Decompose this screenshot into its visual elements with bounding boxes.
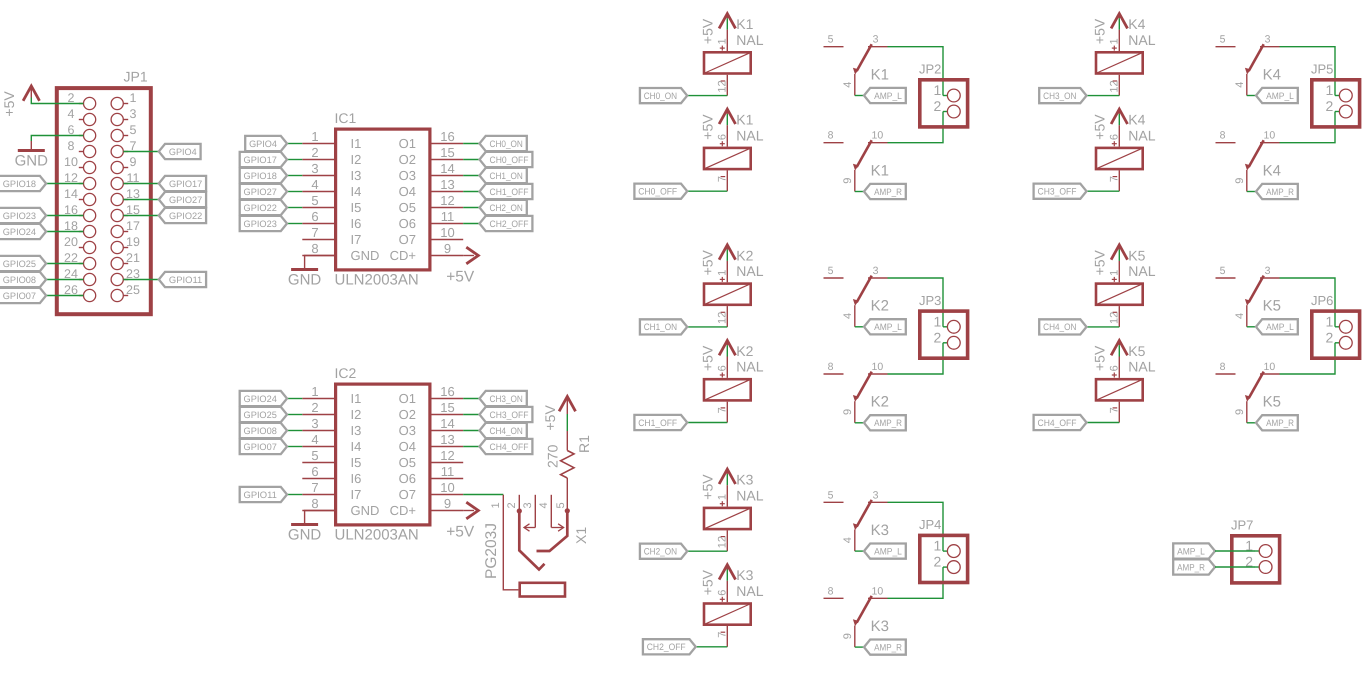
- net label GPIO23: [0, 208, 46, 223]
- svg-text:10: 10: [872, 585, 884, 597]
- wire GPIO4 to IC1 pin 1: [287, 143, 302, 145]
- svg-text:AMP_L: AMP_L: [1266, 322, 1294, 332]
- svg-text:1: 1: [311, 129, 318, 144]
- net label CH4_OFF: [1034, 415, 1087, 430]
- svg-text:AMP_L: AMP_L: [874, 91, 902, 101]
- wire IC1 pin 13 to CH1_OFF: [463, 191, 479, 193]
- wire +5V to K1 coil: [726, 18, 728, 29]
- svg-text:4: 4: [311, 432, 318, 447]
- wire K1 pin3 to JP2 pin1: [888, 47, 944, 96]
- svg-text:O3: O3: [399, 423, 416, 438]
- svg-text:I5: I5: [351, 200, 362, 215]
- svg-text:PG203J: PG203J: [483, 523, 500, 579]
- wire IC1 pin 16 to CH0_ON: [463, 143, 479, 145]
- svg-text:6: 6: [717, 134, 729, 140]
- svg-text:8: 8: [1220, 361, 1226, 373]
- svg-text:AMP_L: AMP_L: [874, 322, 902, 332]
- IC darlington array IC1 ULN2003AN: [302, 110, 463, 289]
- supply +5V symbol at relay K2 coil: [700, 245, 736, 276]
- svg-text:NAL: NAL: [1128, 263, 1155, 279]
- relay coil K5 value NAL: [1096, 343, 1156, 423]
- svg-text:O5: O5: [399, 200, 416, 215]
- svg-text:5: 5: [1220, 265, 1226, 277]
- svg-text:3: 3: [873, 265, 879, 277]
- wire K4 common to AMP_R: [1247, 191, 1256, 193]
- supply +5V symbol at JP1 pin 2: [1, 86, 39, 117]
- svg-text:8: 8: [311, 241, 318, 256]
- wire K1 pin10 to JP2 pin2: [888, 112, 944, 143]
- wire IC1 pin 12 to CH2_ON: [463, 207, 479, 209]
- svg-text:6: 6: [1109, 134, 1121, 140]
- net label CH0_ON: [480, 136, 527, 151]
- svg-text:13: 13: [440, 432, 454, 447]
- svg-text:CH1_ON: CH1_ON: [644, 322, 677, 332]
- svg-text:+5V: +5V: [700, 474, 716, 500]
- ground GND symbol at JP1 pin 6: [15, 141, 49, 170]
- svg-text:CH0_ON: CH0_ON: [490, 139, 523, 149]
- wire GPIO07 to JP1: [46, 295, 83, 297]
- svg-text:JP5: JP5: [1311, 62, 1333, 77]
- svg-text:+5V: +5V: [446, 523, 475, 540]
- svg-text:O7: O7: [399, 487, 416, 502]
- svg-text:ULN2003AN: ULN2003AN: [335, 527, 419, 544]
- relay coil K4 value NAL: [1096, 112, 1156, 192]
- svg-text:I6: I6: [351, 471, 362, 486]
- net label AMP_L: [1256, 319, 1298, 334]
- svg-text:CD+: CD+: [390, 503, 416, 518]
- net label GPIO22: [159, 208, 206, 223]
- svg-text:+5V: +5V: [1, 91, 17, 117]
- wire K2 pin3 to JP3 pin1: [888, 278, 944, 327]
- svg-text:270: 270: [545, 444, 561, 468]
- svg-text:9: 9: [842, 409, 854, 415]
- svg-text:9: 9: [444, 496, 451, 511]
- svg-text:9: 9: [842, 178, 854, 184]
- svg-text:K1: K1: [736, 16, 753, 32]
- wire K1 coil to CH0_ON: [687, 95, 727, 97]
- svg-text:JP3: JP3: [919, 293, 941, 308]
- svg-text:CH3_ON: CH3_ON: [1043, 91, 1076, 101]
- svg-text:8: 8: [828, 130, 834, 142]
- net label CH2_ON: [640, 544, 687, 559]
- connector JP3: [919, 293, 968, 358]
- connector JP2: [919, 62, 968, 127]
- relay contact K1 switch: [824, 130, 889, 192]
- supply +5V symbol at relay K4 coil: [1092, 14, 1128, 44]
- wire K5 pin3 to JP6 pin1: [1280, 278, 1336, 327]
- wire K2 common to AMP_L: [855, 326, 864, 328]
- svg-text:15: 15: [440, 145, 454, 160]
- wire GPIO24 to JP1: [46, 231, 83, 233]
- svg-text:GPIO23: GPIO23: [244, 219, 277, 229]
- svg-text:CH1_OFF: CH1_OFF: [638, 418, 677, 428]
- supply +5V symbol at relay K1 coil: [700, 14, 736, 44]
- svg-text:GND: GND: [288, 527, 322, 544]
- svg-text:GPIO27: GPIO27: [244, 187, 277, 197]
- svg-text:I4: I4: [351, 184, 362, 199]
- svg-text:1: 1: [1109, 270, 1121, 276]
- svg-text:GPIO24: GPIO24: [3, 227, 36, 237]
- svg-text:8: 8: [311, 496, 318, 511]
- svg-text:4: 4: [842, 82, 854, 88]
- svg-text:GPIO18: GPIO18: [3, 179, 36, 189]
- svg-text:17: 17: [126, 219, 140, 233]
- svg-text:+5V: +5V: [700, 345, 716, 371]
- svg-text:2: 2: [934, 329, 942, 345]
- svg-text:GPIO11: GPIO11: [244, 490, 277, 500]
- wire JP1 to GPIO27: [123, 199, 158, 201]
- svg-text:9: 9: [130, 155, 137, 169]
- svg-text:I7: I7: [351, 487, 362, 502]
- svg-text:GND: GND: [15, 153, 49, 170]
- wire K3 coil to CH2_ON: [687, 550, 727, 552]
- svg-text:GPIO24: GPIO24: [244, 394, 277, 404]
- svg-text:3: 3: [1265, 265, 1271, 277]
- net label AMP_L: [864, 319, 906, 334]
- svg-text:+5V: +5V: [700, 569, 716, 595]
- svg-text:7: 7: [311, 480, 318, 495]
- wire K4 common to AMP_L: [1247, 95, 1256, 97]
- net label AMP_R: [1256, 184, 1298, 199]
- net label GPIO07: [240, 439, 287, 454]
- svg-text:20: 20: [64, 235, 78, 249]
- net label GPIO22: [240, 200, 287, 215]
- svg-text:10: 10: [1264, 361, 1276, 373]
- wire IC2 pin 15 to CH3_OFF: [463, 414, 479, 416]
- relay coil K1 value NAL: [704, 16, 764, 96]
- net label CH0_OFF: [480, 152, 533, 167]
- wire K5 pin10 to JP6 pin2: [1280, 343, 1336, 374]
- svg-text:CH3_OFF: CH3_OFF: [490, 410, 529, 420]
- net label CH2_OFF: [480, 216, 533, 231]
- svg-text:1: 1: [934, 313, 942, 329]
- svg-text:AMP_R: AMP_R: [874, 187, 902, 197]
- relay contact K1 switch: [824, 34, 889, 96]
- wire K2 coil to CH1_OFF: [687, 422, 727, 424]
- svg-text:2: 2: [1326, 98, 1334, 114]
- wire GPIO11 to IC2 pin 7: [287, 494, 302, 496]
- net label GPIO4: [245, 136, 287, 151]
- svg-text:12: 12: [1109, 80, 1121, 92]
- svg-text:K3: K3: [871, 618, 889, 635]
- svg-text:1: 1: [934, 82, 942, 98]
- svg-text:11: 11: [441, 209, 455, 224]
- wire IC1 pin 8 to GND: [305, 256, 334, 269]
- wire K2 pin10 to JP3 pin2: [888, 343, 944, 374]
- svg-text:12: 12: [717, 80, 729, 92]
- svg-text:9: 9: [444, 241, 451, 256]
- svg-text:CH2_ON: CH2_ON: [490, 203, 523, 213]
- relay coil K1 value NAL: [704, 112, 764, 192]
- svg-text:12: 12: [440, 448, 454, 463]
- relay contact K4 switch: [1216, 130, 1281, 192]
- net label GPIO27: [240, 184, 287, 199]
- supply +5V symbol at IC2 pin 9: [446, 502, 478, 540]
- net label CH2_OFF: [643, 639, 696, 654]
- wire K5 coil to CH4_ON: [1087, 326, 1120, 328]
- relay coil K3 value NAL: [704, 567, 764, 647]
- wire K5 common to AMP_R: [1247, 422, 1256, 424]
- relay contact K5 switch: [1216, 361, 1281, 423]
- svg-text:GPIO08: GPIO08: [3, 275, 36, 285]
- IC darlington array IC2 ULN2003AN: [302, 365, 463, 544]
- relay contact K2 switch: [824, 265, 889, 327]
- svg-text:R1: R1: [576, 435, 592, 453]
- svg-text:IC1: IC1: [335, 110, 357, 126]
- connector JP1 pin header 2x13: [57, 69, 151, 315]
- svg-text:I1: I1: [351, 391, 362, 406]
- svg-text:GPIO18: GPIO18: [244, 171, 277, 181]
- wire GPIO18 to IC1 pin 3: [287, 175, 302, 177]
- net label GPIO25: [240, 407, 287, 422]
- svg-text:12: 12: [440, 193, 454, 208]
- wire IC2 pin 14 to CH4_ON: [463, 430, 479, 432]
- svg-text:5: 5: [130, 123, 137, 137]
- svg-text:+5V: +5V: [700, 114, 716, 140]
- svg-text:CH0_ON: CH0_ON: [644, 91, 677, 101]
- wire GPIO25 to IC2 pin 2: [287, 414, 302, 416]
- net label GPIO27: [159, 192, 206, 207]
- svg-text:I7: I7: [351, 232, 362, 247]
- svg-text:7: 7: [717, 407, 729, 413]
- wire +5V to K5 coil: [1118, 250, 1120, 261]
- svg-text:GPIO27: GPIO27: [169, 195, 202, 205]
- svg-text:CH4_OFF: CH4_OFF: [1038, 418, 1077, 428]
- svg-text:CH3_OFF: CH3_OFF: [1038, 187, 1077, 197]
- wire K2 coil to CH1_ON: [687, 326, 727, 328]
- svg-text:16: 16: [440, 129, 454, 144]
- svg-text:O3: O3: [399, 168, 416, 183]
- svg-text:+5V: +5V: [542, 405, 558, 431]
- ground GND symbol at IC2 pin 8: [288, 525, 322, 544]
- net label CH0_OFF: [634, 184, 687, 199]
- svg-text:3: 3: [522, 502, 534, 508]
- svg-text:7: 7: [717, 176, 729, 182]
- svg-text:I1: I1: [351, 136, 362, 151]
- svg-text:3: 3: [1265, 34, 1271, 46]
- svg-text:AMP_R: AMP_R: [1177, 562, 1205, 572]
- wire +5V to K1 coil: [726, 114, 728, 125]
- wire IC2 pin 16 to CH3_ON: [463, 398, 479, 400]
- svg-text:5: 5: [828, 34, 834, 46]
- svg-text:CH2_ON: CH2_ON: [644, 547, 677, 557]
- svg-text:O6: O6: [399, 216, 416, 231]
- svg-text:7: 7: [311, 225, 318, 240]
- svg-text:10: 10: [1264, 130, 1276, 142]
- svg-text:K1: K1: [736, 112, 753, 128]
- wire K3 coil to CH2_OFF: [696, 646, 728, 648]
- svg-text:9: 9: [842, 633, 854, 639]
- wire GPIO22 to IC1 pin 5: [287, 207, 302, 209]
- net label AMP_L: [864, 88, 906, 103]
- net label GPIO18: [0, 176, 46, 191]
- wire GPIO17 to IC1 pin 2: [287, 159, 302, 161]
- net label CH1_ON: [480, 168, 527, 183]
- wire AMP_R to JP7 pin2: [1215, 566, 1255, 568]
- svg-text:CD+: CD+: [390, 248, 416, 263]
- svg-text:16: 16: [440, 384, 454, 399]
- svg-text:I2: I2: [351, 407, 362, 422]
- svg-text:+5V: +5V: [1092, 345, 1108, 371]
- svg-text:11: 11: [441, 464, 455, 479]
- svg-text:CH1_OFF: CH1_OFF: [490, 187, 529, 197]
- svg-text:1: 1: [1109, 38, 1121, 44]
- net label AMP_R: [864, 415, 906, 430]
- svg-text:AMP_L: AMP_L: [874, 546, 902, 556]
- wire K2 common to AMP_R: [855, 422, 864, 424]
- svg-text:CH0_OFF: CH0_OFF: [638, 187, 677, 197]
- svg-text:2: 2: [506, 502, 518, 508]
- svg-text:NAL: NAL: [736, 583, 763, 599]
- net label CH3_ON: [1039, 88, 1086, 103]
- net label AMP_L: [1256, 88, 1298, 103]
- svg-text:1: 1: [717, 38, 729, 44]
- svg-text:CH4_ON: CH4_ON: [1043, 322, 1076, 332]
- svg-text:21: 21: [126, 251, 140, 265]
- svg-text:K4: K4: [1128, 112, 1145, 128]
- svg-text:+5V: +5V: [1092, 249, 1108, 275]
- svg-text:+5V: +5V: [1092, 114, 1108, 140]
- svg-text:CH2_OFF: CH2_OFF: [647, 642, 686, 652]
- svg-text:GND: GND: [351, 248, 380, 263]
- svg-text:I3: I3: [351, 168, 362, 183]
- svg-text:12: 12: [1109, 312, 1121, 324]
- svg-text:5: 5: [311, 193, 318, 208]
- svg-text:1: 1: [490, 502, 502, 508]
- svg-text:5: 5: [555, 502, 567, 508]
- wire GPIO25 to JP1: [46, 263, 83, 265]
- net label GPIO23: [240, 216, 287, 231]
- svg-text:JP2: JP2: [919, 62, 941, 77]
- svg-text:GPIO4: GPIO4: [169, 147, 197, 157]
- svg-text:AMP_R: AMP_R: [874, 418, 902, 428]
- wire GPIO18 to JP1: [46, 183, 83, 185]
- wire +5V to K3 coil: [726, 474, 728, 485]
- svg-text:10: 10: [440, 480, 454, 495]
- svg-text:4: 4: [68, 107, 75, 121]
- svg-text:7: 7: [1109, 407, 1121, 413]
- net label CH1_OFF: [634, 415, 687, 430]
- svg-text:6: 6: [717, 590, 729, 596]
- wire +5V to K4 coil: [1118, 18, 1120, 29]
- svg-text:K3: K3: [871, 522, 889, 539]
- svg-text:O2: O2: [399, 407, 416, 422]
- wire GPIO08 to IC2 pin 3: [287, 430, 302, 432]
- wire +5V to K2 coil: [726, 250, 728, 261]
- wire JP1 to GPIO22: [123, 215, 158, 217]
- supply +5V symbol at relay K4 coil: [1092, 109, 1128, 140]
- svg-text:10: 10: [872, 361, 884, 373]
- svg-text:NAL: NAL: [736, 127, 763, 143]
- svg-text:AMP_R: AMP_R: [1266, 187, 1294, 197]
- net label GPIO08: [0, 272, 46, 287]
- svg-text:9: 9: [1234, 409, 1246, 415]
- supply +5V symbol at relay K5 coil: [1092, 245, 1128, 276]
- svg-text:NAL: NAL: [1128, 127, 1155, 143]
- svg-text:2: 2: [1326, 329, 1334, 345]
- svg-text:5: 5: [828, 265, 834, 277]
- resistor R1 value 270: [545, 431, 593, 512]
- svg-text:1: 1: [311, 384, 318, 399]
- supply +5V symbol at relay K1 coil: [700, 109, 736, 140]
- svg-text:AMP_R: AMP_R: [1266, 418, 1294, 428]
- net label CH3_OFF: [480, 407, 533, 422]
- relay coil K5 value NAL: [1096, 247, 1156, 327]
- wire K3 pin3 to JP4 pin1: [888, 502, 944, 551]
- svg-text:I6: I6: [351, 216, 362, 231]
- svg-text:9: 9: [1234, 178, 1246, 184]
- svg-text:K4: K4: [1263, 162, 1281, 179]
- svg-text:GPIO07: GPIO07: [3, 291, 36, 301]
- svg-text:5: 5: [828, 489, 834, 501]
- net label GPIO17: [159, 176, 206, 191]
- wire IC2 pin 8 to GND: [305, 511, 334, 524]
- svg-text:NAL: NAL: [736, 487, 763, 503]
- supply +5V symbol at IC1 pin 9: [446, 247, 478, 285]
- svg-text:12: 12: [717, 312, 729, 324]
- svg-text:O7: O7: [399, 232, 416, 247]
- svg-text:GPIO25: GPIO25: [244, 410, 277, 420]
- svg-text:K5: K5: [1263, 298, 1281, 315]
- svg-text:CH1_ON: CH1_ON: [490, 171, 523, 181]
- supply +5V symbol at relay K3 coil: [700, 469, 736, 500]
- relay contact K4 switch: [1216, 34, 1281, 96]
- net label CH3_ON: [480, 391, 527, 406]
- wire K4 pin3 to JP5 pin1: [1280, 47, 1336, 96]
- svg-text:3: 3: [311, 416, 318, 431]
- supply +5V symbol at relay K2 coil: [700, 341, 736, 372]
- wire +5V to K5 coil: [1118, 345, 1120, 356]
- svg-text:K5: K5: [1128, 343, 1145, 359]
- svg-text:6: 6: [717, 365, 729, 371]
- svg-text:X1: X1: [573, 527, 589, 544]
- relay coil K2 value NAL: [704, 247, 764, 327]
- net label AMP_L: [864, 544, 906, 559]
- connector JP5: [1311, 62, 1360, 127]
- net label GPIO08: [240, 423, 287, 438]
- wire +5V to K4 coil: [1118, 114, 1120, 125]
- svg-text:4: 4: [842, 537, 854, 543]
- svg-text:+5V: +5V: [1092, 18, 1108, 44]
- connector JP4: [919, 517, 968, 582]
- connector JP6: [1311, 293, 1360, 358]
- svg-text:K4: K4: [1128, 16, 1145, 32]
- wire JP1 to GPIO17: [123, 183, 158, 185]
- svg-text:GPIO22: GPIO22: [169, 211, 202, 221]
- wire K4 coil to CH3_OFF: [1087, 190, 1120, 192]
- svg-text:1: 1: [717, 270, 729, 276]
- svg-text:1: 1: [130, 91, 137, 105]
- svg-text:6: 6: [1109, 365, 1121, 371]
- svg-text:5: 5: [311, 448, 318, 463]
- net label AMP_R: [1256, 415, 1298, 430]
- net label GPIO24: [240, 391, 287, 406]
- svg-text:3: 3: [873, 34, 879, 46]
- svg-text:AMP_L: AMP_L: [1266, 91, 1294, 101]
- relay contact K2 switch: [824, 361, 889, 423]
- svg-text:O4: O4: [399, 439, 416, 454]
- svg-text:8: 8: [1220, 130, 1226, 142]
- svg-text:14: 14: [64, 187, 78, 201]
- wire K5 common to AMP_L: [1247, 326, 1256, 328]
- svg-text:4: 4: [311, 177, 318, 192]
- ground GND symbol at IC1 pin 8: [288, 270, 322, 289]
- net label GPIO24: [0, 224, 46, 239]
- wire JP1 to GPIO11: [123, 279, 158, 281]
- net label CH2_ON: [480, 200, 527, 215]
- svg-text:25: 25: [126, 283, 140, 297]
- svg-text:JP6: JP6: [1311, 293, 1333, 308]
